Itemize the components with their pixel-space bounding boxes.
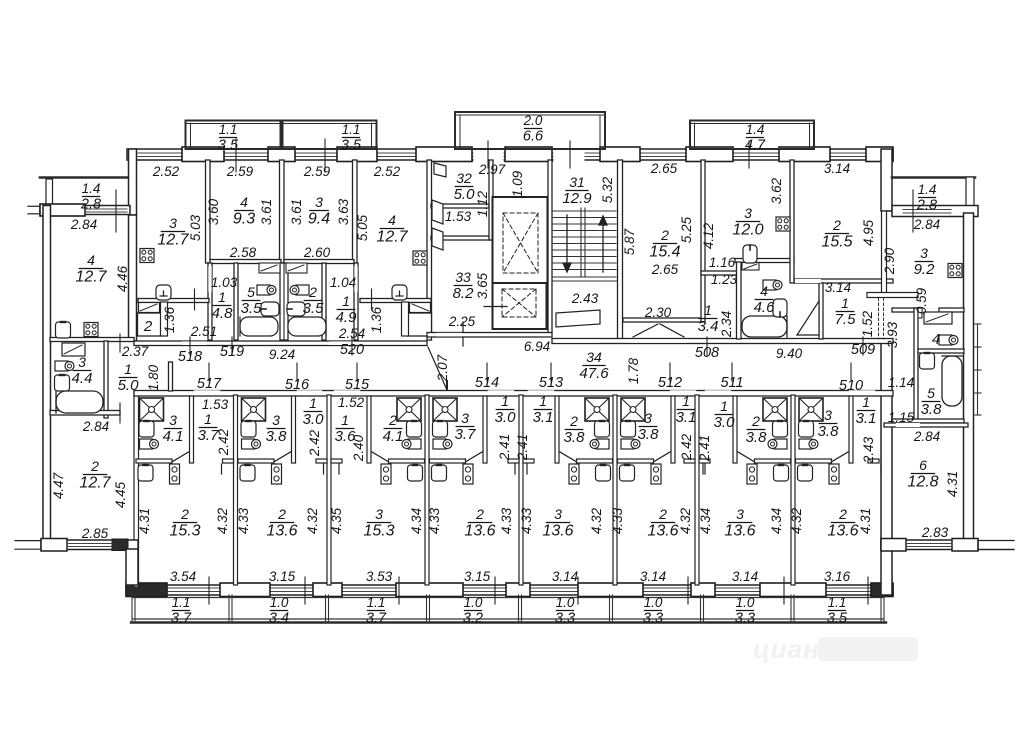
svg-text:3.8: 3.8 <box>921 401 943 418</box>
svg-text:1.0: 1.0 <box>464 595 483 610</box>
wall: elevators | stairwell <box>548 160 552 333</box>
corridor top door gaps <box>184 335 821 344</box>
svg-text:2: 2 <box>388 412 397 428</box>
svg-text:3.5: 3.5 <box>241 300 263 317</box>
svg-text:9.40: 9.40 <box>776 346 803 361</box>
room 3/12.0 <box>732 205 763 239</box>
balcony divider <box>518 595 520 622</box>
svg-text:1.09: 1.09 <box>510 170 525 197</box>
wall: studio unit divider <box>425 395 429 585</box>
svg-text:2.59: 2.59 <box>303 164 331 179</box>
wall: right wing bottom band with window 2.83 <box>881 540 978 550</box>
studio 516 labels <box>266 412 288 445</box>
wall: hall 1/4.8 | bath 5/3.5 <box>234 263 238 340</box>
svg-text:1.16: 1.16 <box>709 255 736 270</box>
svg-text:4.4: 4.4 <box>72 370 93 387</box>
bath 5/3.5 <box>241 284 263 317</box>
balcony divider <box>131 595 133 622</box>
svg-text:4.34: 4.34 <box>698 508 713 534</box>
studio 510 labels <box>818 407 840 440</box>
door leaf stair exit <box>556 310 600 327</box>
svg-text:4.31: 4.31 <box>137 508 152 534</box>
svg-text:1.4: 1.4 <box>918 182 937 197</box>
hall 1/3.4 <box>698 302 719 335</box>
room 2/15.4 <box>649 227 680 261</box>
svg-text:6.6: 6.6 <box>523 128 544 144</box>
svg-text:3: 3 <box>78 354 86 370</box>
balcony 1.1/3.5 #1 <box>186 121 281 150</box>
svg-text:12.7: 12.7 <box>376 229 408 246</box>
balcony label 1.0/3.3 <box>643 595 663 626</box>
svg-text:5.25: 5.25 <box>679 216 694 243</box>
bath 3/4.4 washer <box>62 343 85 356</box>
svg-text:4.12: 4.12 <box>701 222 716 249</box>
svg-text:2.43: 2.43 <box>571 291 599 306</box>
balcony divider <box>700 595 702 622</box>
svg-text:4.31: 4.31 <box>945 471 960 497</box>
wall: entry | hall 1/7.5 <box>819 283 823 339</box>
svg-text:0.59: 0.59 <box>914 287 929 314</box>
svg-text:2: 2 <box>660 227 669 243</box>
studio 512 bath cluster <box>618 396 704 484</box>
svg-text:1.53: 1.53 <box>202 397 229 412</box>
wall: center between baths <box>280 263 288 340</box>
svg-text:2.8: 2.8 <box>80 196 101 212</box>
room 2/15.5 <box>821 217 852 251</box>
svg-text:12.8: 12.8 <box>907 474 938 491</box>
svg-text:2.59: 2.59 <box>226 164 254 179</box>
svg-text:1: 1 <box>704 302 712 318</box>
wall: hall 1/3.4 top <box>701 271 737 275</box>
wall: under room 4/9.3 (2.58) <box>210 260 281 264</box>
svg-text:2.84: 2.84 <box>913 429 940 444</box>
svg-text:1: 1 <box>341 412 349 428</box>
svg-text:5.05: 5.05 <box>355 214 370 241</box>
wall: studio unit divider <box>327 395 331 585</box>
wall: left outer vertical <box>43 206 51 541</box>
bath 2/3.5 heater <box>287 302 305 316</box>
svg-text:4.33: 4.33 <box>499 507 514 534</box>
svg-text:3: 3 <box>461 410 469 426</box>
hall 1/5.0 <box>118 361 140 394</box>
svg-text:31: 31 <box>569 174 585 190</box>
bath 5/3.5 sink <box>257 285 276 295</box>
tick right balcony <box>912 190 914 232</box>
svg-text:4.45: 4.45 <box>113 481 128 508</box>
svg-text:2.65: 2.65 <box>650 161 678 176</box>
svg-text:3.3: 3.3 <box>643 610 663 626</box>
svg-text:1.4: 1.4 <box>746 122 765 137</box>
svg-text:2.43: 2.43 <box>861 436 876 464</box>
room 2/15.3 <box>169 506 200 540</box>
wall: corridor top, core section <box>427 333 552 338</box>
svg-text:4.32: 4.32 <box>789 507 804 534</box>
svg-text:6: 6 <box>919 457 927 473</box>
balcony label 1.1/3.5 <box>341 122 362 153</box>
svg-text:4.7: 4.7 <box>745 137 766 153</box>
svg-text:3: 3 <box>744 205 752 221</box>
corridor 34/47.6 <box>579 349 609 382</box>
stairs arrows <box>563 215 607 272</box>
hall 1/4.8 <box>212 289 234 322</box>
room 3/13.6 <box>542 506 573 540</box>
room 2/12.7 <box>79 458 111 492</box>
door leaf bath 4.6 <box>742 263 759 271</box>
stairs treads <box>553 208 616 277</box>
bath 3/4.4 sink <box>55 361 74 371</box>
svg-text:2: 2 <box>569 413 578 429</box>
room 6/12.8 <box>907 457 938 491</box>
wall: room 12.0 bottom (over bath) <box>735 259 794 263</box>
room 3/12.7 <box>157 215 189 249</box>
door swings apt 508 <box>633 324 658 337</box>
svg-text:3.65: 3.65 <box>475 272 490 299</box>
svg-text:2: 2 <box>475 506 484 522</box>
svg-text:4.32: 4.32 <box>589 507 604 534</box>
stove kitchen 9.2 <box>948 264 962 278</box>
svg-text:3.63: 3.63 <box>336 198 351 225</box>
svg-text:3.2: 3.2 <box>463 610 483 626</box>
svg-text:1: 1 <box>218 289 226 305</box>
svg-text:1.36: 1.36 <box>369 306 384 333</box>
svg-text:4: 4 <box>240 194 248 210</box>
wall: room 3/12.7 | 4/9.3 <box>206 160 211 263</box>
svg-text:33: 33 <box>455 269 471 285</box>
svg-text:3: 3 <box>315 194 323 210</box>
bath 3/4.4 <box>72 354 93 387</box>
svg-text:3: 3 <box>644 410 652 426</box>
wall: kitchen 3/9.2 bottom <box>892 308 918 312</box>
svg-text:3.3: 3.3 <box>555 610 575 626</box>
lift hall 33/8.2 <box>453 269 475 302</box>
svg-text:3: 3 <box>169 412 177 428</box>
wall: room 2/15.4 bottom <box>623 318 703 322</box>
elevator 1 shaft <box>493 197 548 283</box>
svg-text:15.5: 15.5 <box>821 234 852 251</box>
bath 5/3.5 heater <box>261 302 279 316</box>
svg-text:1.78: 1.78 <box>626 357 641 384</box>
svg-text:3: 3 <box>736 506 744 522</box>
svg-text:1: 1 <box>539 393 547 409</box>
svg-text:15.3: 15.3 <box>169 523 200 540</box>
svg-text:1.1: 1.1 <box>172 595 191 610</box>
svg-text:4.32: 4.32 <box>678 507 693 534</box>
balcony 1.4/2.8 right <box>892 176 975 179</box>
svg-text:4.35: 4.35 <box>329 507 344 534</box>
balcony label 1.0/3.4 <box>269 595 289 626</box>
balcony label 1.0/3.3 <box>735 595 755 626</box>
studio 513 bath cluster <box>527 396 613 484</box>
stair landing line <box>552 280 617 282</box>
svg-text:1.0: 1.0 <box>556 595 575 610</box>
svg-text:3.54: 3.54 <box>170 569 196 584</box>
svg-text:2.34: 2.34 <box>719 311 734 338</box>
heater room 12.0 <box>743 245 757 263</box>
svg-text:3: 3 <box>272 412 280 428</box>
wall: corridor top, left section <box>134 341 427 346</box>
svg-text:2: 2 <box>658 506 667 522</box>
svg-text:7.5: 7.5 <box>835 311 857 328</box>
svg-text:8.2: 8.2 <box>453 285 475 302</box>
svg-text:3.14: 3.14 <box>732 569 758 584</box>
door swing corridor core <box>428 347 447 390</box>
svg-text:3.14: 3.14 <box>640 569 666 584</box>
svg-text:3.8: 3.8 <box>638 426 660 443</box>
door swing apt 509 <box>797 301 819 335</box>
balcony divider <box>325 595 327 622</box>
svg-text:3: 3 <box>920 245 928 261</box>
svg-text:9.2: 9.2 <box>914 261 936 278</box>
wall: studio unit divider <box>791 395 795 585</box>
bath 2/3.5 shelf <box>286 263 307 273</box>
svg-text:1.04: 1.04 <box>330 275 356 290</box>
bathtub 3/4.4 <box>56 391 103 413</box>
wall: hall 1/5.0 bottom <box>50 411 120 416</box>
svg-text:1.52: 1.52 <box>860 310 875 337</box>
svg-text:1.1: 1.1 <box>367 595 386 610</box>
bath 2/3.5 sink <box>290 285 309 295</box>
svg-text:4: 4 <box>932 331 940 348</box>
wall: right main block vertical (unit510 right / room6 left) <box>881 149 892 211</box>
svg-text:12.7: 12.7 <box>157 232 189 249</box>
wall: right wing top band with window <box>892 206 978 217</box>
svg-text:5.32: 5.32 <box>600 176 615 203</box>
room 4/12.7 <box>376 212 408 246</box>
svg-text:1.0: 1.0 <box>644 595 663 610</box>
studio 514 labels <box>455 410 477 443</box>
svg-text:3.8: 3.8 <box>746 429 768 446</box>
door leaf lobby left lower <box>432 228 443 250</box>
sink kitchen left wing <box>56 322 71 338</box>
wall piers bottom wall <box>126 583 893 597</box>
svg-text:2.54: 2.54 <box>338 326 365 341</box>
wall: corridor top, right section <box>552 339 893 344</box>
wall: lobby bottom <box>431 236 492 240</box>
room 2/13.6 <box>464 506 495 540</box>
svg-text:1: 1 <box>124 361 132 377</box>
svg-text:13.6: 13.6 <box>464 523 495 540</box>
wall: kitchen 4/12.7 bottom <box>50 338 134 342</box>
stove room 3/12.7 <box>140 249 154 263</box>
svg-text:12.7: 12.7 <box>79 475 111 492</box>
studio 510 bath cluster <box>796 396 882 484</box>
svg-text:4.34: 4.34 <box>769 508 784 534</box>
svg-text:3.4: 3.4 <box>698 318 719 335</box>
wall: studio unit divider <box>234 395 238 585</box>
appliance room 4/12.7 <box>392 285 407 300</box>
balcony 1.4/4.7 <box>690 121 814 150</box>
wall: corridor bottom <box>134 391 893 397</box>
svg-text:2: 2 <box>143 318 153 335</box>
svg-text:4.33: 4.33 <box>236 507 251 534</box>
svg-text:520: 520 <box>340 342 364 358</box>
studio 516 bath cluster <box>238 396 324 484</box>
svg-text:1.52: 1.52 <box>338 395 365 410</box>
svg-text:3: 3 <box>169 215 177 231</box>
svg-text:3.8: 3.8 <box>818 423 840 440</box>
bath 5/3.5 shelf <box>259 263 280 273</box>
svg-text:1.03: 1.03 <box>211 275 238 290</box>
svg-text:6.94: 6.94 <box>524 339 550 354</box>
svg-text:3.15: 3.15 <box>269 569 296 584</box>
tick left balcony <box>115 190 117 232</box>
svg-text:1: 1 <box>204 411 212 427</box>
studio 513 labels <box>533 393 554 426</box>
svg-text:4.6: 4.6 <box>754 299 776 316</box>
svg-text:4.1: 4.1 <box>163 428 184 445</box>
balcony divider <box>790 595 792 622</box>
svg-text:4.47: 4.47 <box>51 472 66 499</box>
appliance room 3/12.7 <box>156 285 171 300</box>
svg-text:2.07: 2.07 <box>435 354 450 382</box>
bath 4/4.6 fixtures: sink + tub <box>763 280 782 290</box>
closet right <box>408 313 432 336</box>
svg-text:2: 2 <box>90 458 99 474</box>
svg-text:2.84: 2.84 <box>82 419 109 434</box>
svg-text:9.24: 9.24 <box>269 347 295 362</box>
svg-text:12.0: 12.0 <box>732 222 763 239</box>
svg-text:3.1: 3.1 <box>676 409 697 426</box>
dim tick 2.25 <box>462 322 464 346</box>
studio 511 bath cluster <box>705 396 791 484</box>
stair 31/12.9 <box>562 174 592 207</box>
elevator 2 shaft <box>493 283 547 329</box>
svg-text:2: 2 <box>180 506 189 522</box>
svg-text:2.41: 2.41 <box>497 434 512 461</box>
svg-text:2.51: 2.51 <box>190 324 217 339</box>
svg-text:2.41: 2.41 <box>697 435 712 462</box>
svg-text:3: 3 <box>824 407 832 423</box>
room 4/12.7 left <box>75 252 107 286</box>
svg-text:3: 3 <box>375 506 383 522</box>
bath 2/3.5 <box>303 284 325 317</box>
wall: bath bottom / room 6 top <box>892 419 964 423</box>
svg-text:4.9: 4.9 <box>336 309 358 326</box>
balcony divider <box>880 595 882 622</box>
svg-text:2.41: 2.41 <box>515 434 530 461</box>
wc 4 top wall jog <box>918 308 922 318</box>
svg-text:5.0: 5.0 <box>118 377 140 394</box>
svg-text:1.0: 1.0 <box>270 595 289 610</box>
hall 1/4.9 <box>336 293 358 326</box>
svg-text:3.14: 3.14 <box>552 569 578 584</box>
svg-text:2: 2 <box>277 506 286 522</box>
wall: bath 3/4.4 right <box>104 341 108 418</box>
balcony label 1.1/3.7 <box>366 595 387 626</box>
svg-text:517: 517 <box>197 376 222 392</box>
svg-text:2: 2 <box>751 413 760 429</box>
svg-text:4.95: 4.95 <box>861 219 876 246</box>
balcony label 1.1/3.5 <box>827 595 848 626</box>
svg-text:2: 2 <box>838 506 847 522</box>
room 3/15.3 <box>363 506 394 540</box>
svg-text:4.34: 4.34 <box>409 508 424 534</box>
svg-text:4: 4 <box>760 283 768 299</box>
svg-text:512: 512 <box>658 375 682 391</box>
wall: partial under 4/12.7 <box>360 299 431 303</box>
svg-text:3.16: 3.16 <box>824 569 851 584</box>
svg-text:3.93: 3.93 <box>885 321 900 348</box>
svg-text:2.37: 2.37 <box>121 344 149 359</box>
wall: strip | wc/bath <box>914 308 918 423</box>
wall: studio 517 left <box>134 391 139 587</box>
wall: studio unit divider <box>519 395 523 585</box>
svg-text:32: 32 <box>456 170 472 186</box>
balcony label 1.4/2.8 left <box>80 181 101 212</box>
balcony label 1.0/3.3 <box>555 595 575 626</box>
svg-text:3.7: 3.7 <box>455 426 477 443</box>
wall: kitchen 3/9.2 left <box>882 211 887 293</box>
svg-text:2.65: 2.65 <box>651 262 679 277</box>
wall: top main exterior band <box>127 149 893 160</box>
svg-text:1.4: 1.4 <box>82 181 101 196</box>
svg-text:3.5: 3.5 <box>218 137 239 153</box>
svg-text:4.32: 4.32 <box>305 507 320 534</box>
wall: left wing top band with window 2.84 <box>40 206 130 215</box>
room 2/13.6 <box>266 506 297 540</box>
svg-text:13.6: 13.6 <box>724 523 755 540</box>
stove kitchen left wing <box>84 323 98 337</box>
svg-text:1: 1 <box>682 393 690 409</box>
svg-text:1.53: 1.53 <box>445 209 472 224</box>
dimension ticks top wall <box>235 139 237 172</box>
kitchen 3/9.2 <box>914 245 936 278</box>
svg-text:516: 516 <box>285 377 310 393</box>
balcony 1.1/3.5 #2 <box>283 121 377 150</box>
balcony divider <box>228 595 230 622</box>
svg-text:3.7: 3.7 <box>171 610 192 626</box>
svg-text:1.23: 1.23 <box>711 272 738 287</box>
svg-text:12.7: 12.7 <box>75 269 107 286</box>
wall: partial under 3/12.7 <box>138 299 209 303</box>
svg-text:2.40: 2.40 <box>351 434 366 462</box>
svg-text:3.53: 3.53 <box>366 569 393 584</box>
wall: hall 1/4.9 right <box>354 263 358 340</box>
corridor label ticks <box>189 337 191 355</box>
svg-text:4.46: 4.46 <box>115 265 130 292</box>
svg-text:509: 509 <box>851 342 875 358</box>
svg-text:3.14: 3.14 <box>824 161 850 176</box>
vestibule 32/5.0 <box>454 170 476 203</box>
stove room 12.0 <box>776 217 790 231</box>
wall: right outer vertical <box>964 213 974 540</box>
svg-text:3.61: 3.61 <box>289 199 304 225</box>
svg-text:3.14: 3.14 <box>825 280 851 295</box>
svg-text:513: 513 <box>539 375 563 391</box>
open sections of top wall (balcony/stair glazing) <box>474 151 585 164</box>
svg-text:13.6: 13.6 <box>647 523 678 540</box>
svg-text:3.4: 3.4 <box>269 610 289 626</box>
bath 3/4.4 wc <box>55 375 70 391</box>
svg-text:2.42: 2.42 <box>679 433 694 461</box>
wall: lobby | elevator shaft <box>489 160 493 240</box>
svg-text:514: 514 <box>475 375 499 391</box>
svg-text:1.12: 1.12 <box>475 190 490 217</box>
french balcony hatch right <box>975 324 981 415</box>
svg-text:519: 519 <box>220 344 244 360</box>
svg-text:1.14: 1.14 <box>888 375 914 390</box>
svg-text:2.85: 2.85 <box>81 526 109 541</box>
svg-text:3.8: 3.8 <box>564 429 586 446</box>
dimension ticks bottom wall <box>208 577 210 604</box>
svg-text:2.84: 2.84 <box>913 217 940 232</box>
wall: hall 1/3.4 | bath 4/4.6 <box>737 262 742 339</box>
wall: studio unit divider <box>613 395 617 585</box>
svg-text:5.03: 5.03 <box>188 214 203 241</box>
room 3/13.6 <box>724 506 755 540</box>
wall: corridor left end stub <box>169 362 173 391</box>
studio 515 bath cluster <box>339 396 425 484</box>
